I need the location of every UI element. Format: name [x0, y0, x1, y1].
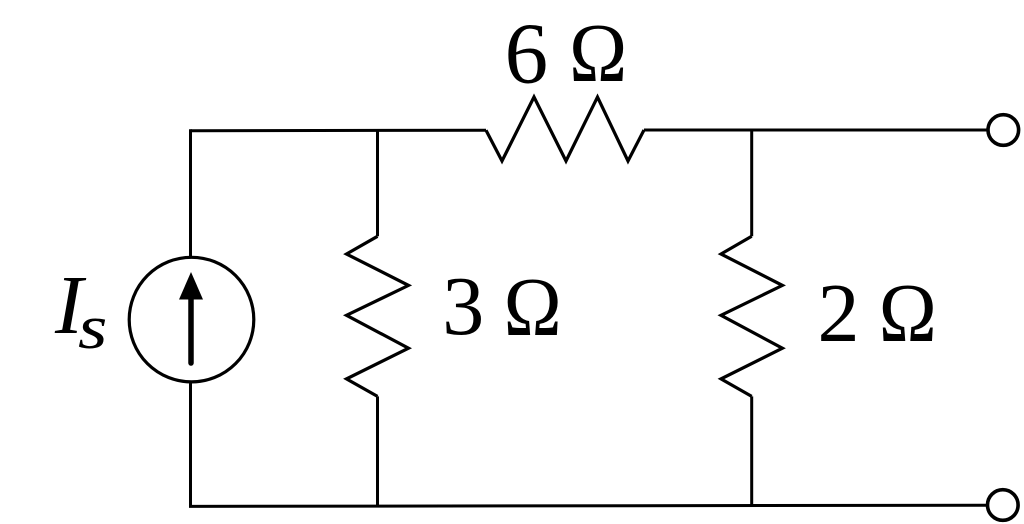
- svg-text:s: s: [78, 293, 107, 363]
- label 3 Ω: [442, 260, 561, 353]
- wire 3Ω branch lower vertical: [376, 396, 379, 506]
- wire top-right horizontal segment: [644, 129, 987, 132]
- label 2 Ω: [818, 266, 937, 360]
- wire 2Ω branch lower vertical: [750, 396, 753, 505]
- wire left vertical lower segment: [189, 383, 192, 507]
- wire 3Ω branch upper vertical: [376, 131, 379, 237]
- wire top-left horizontal segment: [191, 129, 487, 133]
- wire 2Ω branch upper vertical: [750, 130, 753, 236]
- svg-text:2: 2: [818, 267, 860, 360]
- resistor R3 2Ω (shunt, vertical zigzag): [721, 236, 782, 396]
- resistor R1 6Ω (series, horizontal zigzag): [486, 97, 644, 161]
- svg-text:6: 6: [505, 4, 548, 101]
- label 6 Ω: [505, 4, 628, 101]
- resistor R2 3Ω (shunt, vertical zigzag): [347, 236, 409, 396]
- svg-text:3: 3: [442, 260, 484, 353]
- current source U1 circle: [129, 257, 254, 382]
- svg-text:Ω: Ω: [569, 6, 627, 99]
- wire bottom horizontal: [189, 505, 986, 506]
- terminal a (top-right open circle): [988, 115, 1019, 146]
- label Is: [54, 259, 107, 363]
- terminal b (bottom-right open circle): [988, 490, 1019, 521]
- svg-text:Ω: Ω: [504, 260, 562, 353]
- current source arrow: [188, 296, 194, 363]
- svg-text:Ω: Ω: [879, 266, 937, 359]
- wire left vertical upper segment: [189, 129, 192, 256]
